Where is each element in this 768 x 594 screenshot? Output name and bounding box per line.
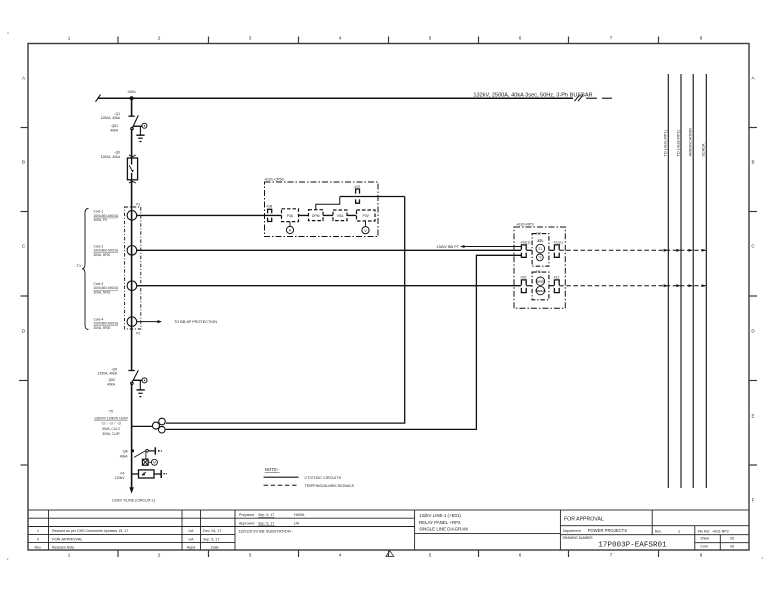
svg-text:UA: UA <box>189 529 195 533</box>
svg-text:CT/VT/DC CIRCUITS: CT/VT/DC CIRCUITS <box>305 476 342 480</box>
svg-text:+E01-CP50: +E01-CP50 <box>264 178 284 182</box>
svg-text:-W01: -W01 <box>127 90 136 94</box>
wire trip/alarm signals 1 (dashed) <box>559 249 706 251</box>
svg-text:120kV: 120kV <box>115 476 125 480</box>
line arrow to 132kV T/LINE <box>129 487 133 493</box>
svg-text:P3V: P3V <box>362 214 369 218</box>
svg-text:132kV BB PT: 132kV BB PT <box>436 245 459 249</box>
svg-text:POWER PROJECTS: POWER PROJECTS <box>588 528 628 533</box>
svg-text:A: A <box>289 229 292 233</box>
svg-text:40kA: 40kA <box>107 382 115 386</box>
svg-text:6: 6 <box>519 36 522 41</box>
svg-text:-T1: -T1 <box>76 264 81 268</box>
svg-text:Sep. 5, 17: Sep. 5, 17 <box>258 513 274 517</box>
svg-text:Prepared: Prepared <box>239 513 254 517</box>
svg-text:50VA, CL0.2: 50VA, CL0.2 <box>102 427 120 431</box>
svg-text:TO (+E02-RP2): TO (+E02-RP2) <box>676 129 680 156</box>
svg-text:P3A: P3A <box>287 214 294 218</box>
svg-text:SCADA: SCADA <box>702 143 706 157</box>
meter unit DPM <box>309 210 324 221</box>
svg-text:21: 21 <box>538 247 542 251</box>
svg-text:1: 1 <box>37 529 39 533</box>
svg-text:132kV LINE-1 (+E01): 132kV LINE-1 (+E01) <box>419 513 461 518</box>
earthing switch Q51 <box>133 123 147 128</box>
svg-text:05: 05 <box>730 537 734 541</box>
svg-text:V: V <box>364 229 367 233</box>
svg-text:8: 8 <box>700 36 703 41</box>
svg-text:-Q8: -Q8 <box>122 450 128 454</box>
svg-text:Rev.: Rev. <box>655 529 662 533</box>
svg-text:Revised as per CHS Comments Up: Revised as per CHS Comments Updates 15, … <box>52 529 128 533</box>
svg-text:2: 2 <box>158 552 161 557</box>
svg-text:40kA: 40kA <box>120 454 128 458</box>
svg-text:B: B <box>751 160 754 165</box>
terminal X02 <box>521 280 526 293</box>
svg-text:Cont: Cont <box>700 545 707 549</box>
svg-text:2: 2 <box>158 36 161 41</box>
terminal X07 <box>356 189 360 203</box>
svg-text:7: 7 <box>610 36 613 41</box>
svg-text:-F87: -F87 <box>535 232 542 236</box>
wire VT secondary 2 to RP3 <box>166 255 521 429</box>
signal line ANNUNCIATION <box>692 74 694 488</box>
svg-text:File Ref.: File Ref. <box>698 530 711 534</box>
svg-text:DPM: DPM <box>312 214 320 218</box>
svg-text:30VA, 5P20: 30VA, 5P20 <box>94 290 111 294</box>
svg-text:50/51: 50/51 <box>537 280 545 284</box>
svg-text:-T5: -T5 <box>108 410 113 414</box>
ground <box>136 380 144 396</box>
svg-text:6: 6 <box>519 552 522 557</box>
wire CT2 to relay panel <box>137 249 521 251</box>
svg-text:Approved: Approved <box>239 521 254 525</box>
svg-text:UA: UA <box>294 521 300 525</box>
earthing switch Q52 <box>133 378 147 383</box>
signal line TO (+E02-RP2) <box>680 74 682 488</box>
svg-text:+E01-RP3: +E01-RP3 <box>712 530 729 534</box>
svg-text:P2: P2 <box>136 332 140 336</box>
busbar 132kV <box>96 94 613 101</box>
svg-text:E: E <box>751 414 754 419</box>
svg-text:FOR APPROVAL: FOR APPROVAL <box>564 517 604 523</box>
svg-text:HMSA: HMSA <box>294 513 305 517</box>
svg-text:40kA: 40kA <box>110 128 118 132</box>
current transformer T1 (4 cores) <box>125 207 141 329</box>
svg-text:-X11(1): -X11(1) <box>552 241 562 245</box>
voltage transformer T5 (CVT) <box>132 418 166 433</box>
svg-text:79: 79 <box>538 256 542 260</box>
svg-text:RELAY PANEL +RP3: RELAY PANEL +RP3 <box>419 520 461 525</box>
svg-text:5: 5 <box>429 36 432 41</box>
svg-text:0: 0 <box>37 537 39 541</box>
svg-text:132/115 kV BB SUBSTATION -: 132/115 kV BB SUBSTATION - <box>238 529 294 534</box>
svg-text:DRAWING NUMBER: DRAWING NUMBER <box>563 536 594 540</box>
svg-text:NOTE:-: NOTE:- <box>265 467 280 472</box>
svg-text:Department: Department <box>563 529 581 533</box>
svg-text:UA: UA <box>189 537 195 541</box>
svg-text:Revision Note: Revision Note <box>52 545 74 549</box>
svg-text:VSA: VSA <box>337 214 345 218</box>
svg-text:FOR APPROVAL: FOR APPROVAL <box>52 536 83 541</box>
svg-text:M: M <box>153 461 156 465</box>
svg-text:Dec. 04, 17: Dec. 04, 17 <box>203 529 221 533</box>
svg-text:TO (+E01-RP1): TO (+E01-RP1) <box>664 129 668 156</box>
svg-text:132kV, 2500A, 40kA 3sec, 50Hz,: 132kV, 2500A, 40kA 3sec, 50Hz, 3-Ph BUSB… <box>473 93 592 99</box>
node -W01 <box>130 96 134 100</box>
svg-text:Date: Date <box>211 545 219 549</box>
svg-text:30VA, PX: 30VA, PX <box>94 218 108 222</box>
svg-text:7: 7 <box>610 552 613 557</box>
wire VT bus inside CP50 <box>340 196 405 198</box>
svg-text:50N/51N: 50N/51N <box>535 289 546 293</box>
brace T1 group <box>82 209 89 330</box>
wire trip/alarm signals 2 (dashed) <box>559 285 706 287</box>
svg-text:SINGLE LINE DIAGRAM: SINGLE LINE DIAGRAM <box>419 526 468 531</box>
earthing switch Q8 <box>131 447 162 457</box>
svg-text:+E01-RP3: +E01-RP3 <box>516 223 534 227</box>
svg-text:1: 1 <box>68 36 71 41</box>
svg-text:3: 3 <box>249 552 252 557</box>
meter unit P3A with ammeter <box>282 209 299 222</box>
svg-text:Rev.: Rev. <box>34 545 41 549</box>
panel +E01-CP50 <box>265 182 379 237</box>
svg-text:P1: P1 <box>136 202 140 206</box>
svg-text:132kV/0.110kV/0.110kV: 132kV/0.110kV/0.110kV <box>94 417 129 421</box>
terminal X11 <box>554 245 559 257</box>
svg-text:06: 06 <box>730 545 734 549</box>
svg-text:4: 4 <box>339 36 342 41</box>
svg-text:ANNUNCIATION: ANNUNCIATION <box>689 128 693 157</box>
svg-text:B: B <box>22 160 25 165</box>
terminal X01 <box>521 245 526 257</box>
circuit breaker Q0 <box>127 155 137 183</box>
svg-text:Sheet: Sheet <box>700 537 709 541</box>
wire CT3 to relay panel <box>137 285 521 287</box>
svg-text:50VA, CL3P: 50VA, CL3P <box>102 432 119 436</box>
svg-text:-F4: -F4 <box>119 471 124 475</box>
ground <box>136 126 144 141</box>
svg-text:F: F <box>752 498 755 503</box>
svg-text:1: 1 <box>68 552 71 557</box>
svg-text:-X07: -X07 <box>354 185 361 189</box>
svg-text:3: 3 <box>249 36 252 41</box>
svg-text:1250A, 40kA: 1250A, 40kA <box>101 116 121 120</box>
wire: main bay vertical <box>131 98 133 488</box>
svg-text:-X02: -X02 <box>520 275 527 279</box>
terminal X06 <box>268 209 272 221</box>
wire CT4 to busbar protection <box>137 321 158 323</box>
wire DPM voltage tap <box>316 197 340 210</box>
svg-text:Appd: Appd <box>187 545 195 549</box>
relay F87 (87L/21/79) <box>532 234 549 267</box>
meter unit VSA <box>333 210 347 221</box>
relay F50 (50/51, 50N/51N) <box>532 272 549 300</box>
svg-text:87L: 87L <box>537 239 544 243</box>
signal line SCADA <box>705 74 707 488</box>
svg-text:-Q0: -Q0 <box>114 151 120 155</box>
disconnector Q9 <box>128 370 138 384</box>
svg-text:Sep. 5, 17: Sep. 5, 17 <box>258 521 274 525</box>
svg-text:-X12: -X12 <box>553 275 560 279</box>
svg-text:132kV T/LINE (CIRCUIT-1): 132kV T/LINE (CIRCUIT-1) <box>112 498 155 502</box>
svg-text:-X01(1): -X01(1) <box>520 241 531 245</box>
svg-text:-F50: -F50 <box>535 270 542 274</box>
svg-text:30VA, 5P20: 30VA, 5P20 <box>94 253 111 257</box>
svg-text:1: 1 <box>678 529 680 533</box>
title block <box>28 510 749 550</box>
signal line TO (+E01-RP1) <box>667 74 669 488</box>
meter unit P3V with voltmeter <box>357 210 376 221</box>
terminal X12 <box>554 280 559 293</box>
svg-text:Sep. 5, 17: Sep. 5, 17 <box>203 537 219 541</box>
svg-text:1250A, 40kA: 1250A, 40kA <box>101 155 121 159</box>
svg-text:√3 / √3 / √3: √3 / √3 / √3 <box>101 422 121 426</box>
wire CT1 to metering panel <box>137 214 375 216</box>
relay panel +E01-RP3 <box>514 227 565 308</box>
surge arrester F4 <box>132 470 167 478</box>
svg-text:5: 5 <box>429 552 432 557</box>
wire VT secondary 1 to CP50 <box>166 197 405 424</box>
motor operator M <box>142 452 157 465</box>
svg-text:30VA, 5P20: 30VA, 5P20 <box>94 326 111 330</box>
svg-text:-X06: -X06 <box>266 205 273 209</box>
svg-text:17P003P-EAFSR01: 17P003P-EAFSR01 <box>598 542 667 550</box>
svg-text:TRIPPING/ALARM SIGNALS: TRIPPING/ALARM SIGNALS <box>305 484 355 488</box>
disconnector Q1 <box>128 115 138 130</box>
svg-text:4: 4 <box>339 552 342 557</box>
svg-text:TO BB-6P PROTECTION: TO BB-6P PROTECTION <box>174 320 217 324</box>
svg-text:8: 8 <box>700 552 703 557</box>
svg-text:1250A, 40kA: 1250A, 40kA <box>98 372 118 376</box>
